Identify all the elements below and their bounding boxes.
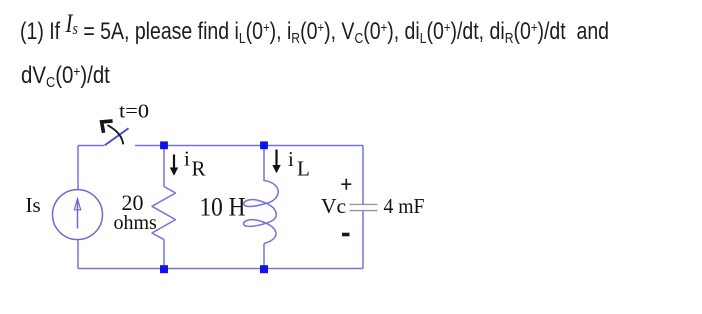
svg-text:10 H: 10 H bbox=[200, 193, 246, 222]
resistor R (20 ohms) branch top wire bbox=[163, 146, 165, 187]
switch arrowhead bbox=[102, 121, 113, 133]
current source Is (circle with arrow) bbox=[53, 190, 103, 240]
wire: left vertical upper bbox=[77, 146, 79, 191]
switch SW1 blade (open, t=0) bbox=[105, 128, 129, 145]
svg-text:t=0: t=0 bbox=[119, 101, 149, 123]
wire: top left segment from source to switch bbox=[78, 145, 104, 147]
switch actuation arc bbox=[108, 125, 124, 144]
label - polarity bbox=[342, 233, 350, 237]
wire: top segment switch to right corner bbox=[135, 145, 363, 147]
svg-text:ohms: ohms bbox=[114, 212, 158, 234]
svg-text:Vc: Vc bbox=[321, 194, 346, 218]
current arrow iR bbox=[173, 155, 175, 170]
wire: bottom segment bbox=[78, 268, 363, 270]
inductor L (10 H) branch top wire bbox=[263, 146, 265, 182]
svg-text:L: L bbox=[297, 157, 310, 181]
svg-text:4 mF: 4 mF bbox=[384, 194, 425, 218]
inductor L coil (cursive loops) bbox=[244, 181, 279, 244]
current source internal arrow bbox=[77, 199, 79, 229]
label + polarity bbox=[341, 179, 351, 190]
node top-right junction bbox=[260, 141, 268, 149]
node bottom-right junction bbox=[260, 265, 268, 273]
svg-text:i: i bbox=[184, 147, 190, 171]
resistor R zigzag bbox=[152, 187, 176, 240]
wire: right vertical lower bbox=[362, 211, 364, 269]
svg-text:i: i bbox=[288, 147, 294, 171]
problem statement line 1 bbox=[20, 16, 609, 46]
current arrow iL bbox=[275, 150, 277, 168]
inductor L branch bottom wire bbox=[263, 244, 265, 269]
node bottom-left junction bbox=[160, 265, 168, 273]
svg-text:R: R bbox=[192, 157, 206, 181]
node top-left junction bbox=[160, 141, 168, 149]
resistor R branch bottom wire bbox=[163, 240, 165, 269]
problem statement line 2 bbox=[21, 62, 110, 90]
capacitor C plates bbox=[350, 203, 378, 205]
svg-text:Is: Is bbox=[26, 193, 41, 217]
wire: right vertical upper bbox=[362, 146, 364, 205]
wire: left vertical lower bbox=[77, 240, 79, 269]
